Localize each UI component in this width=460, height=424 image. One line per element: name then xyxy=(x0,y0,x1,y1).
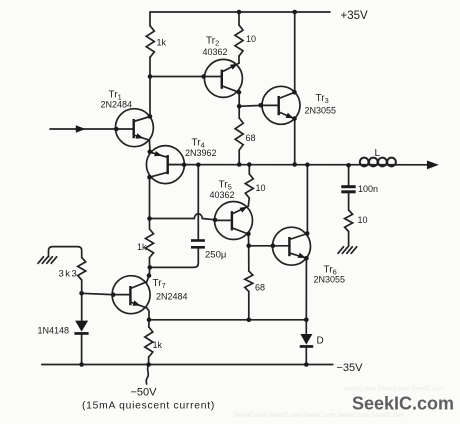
svg-text:−50V: −50V xyxy=(131,387,158,399)
svg-text:1N4148: 1N4148 xyxy=(38,326,70,336)
svg-text:2N3962: 2N3962 xyxy=(185,148,217,158)
svg-text:L: L xyxy=(375,148,381,159)
svg-text:1k: 1k xyxy=(157,38,167,48)
svg-text:40362: 40362 xyxy=(203,47,228,57)
svg-text:68: 68 xyxy=(255,283,265,293)
svg-text:2N2484: 2N2484 xyxy=(156,292,188,302)
svg-text:250μ: 250μ xyxy=(205,250,226,261)
svg-text:2N3055: 2N3055 xyxy=(314,275,346,285)
svg-text:SeekIC.com: SeekIC.com xyxy=(352,394,454,414)
svg-text:(15mA quiescent current): (15mA quiescent current) xyxy=(82,401,215,412)
svg-text:Tr3: Tr3 xyxy=(316,93,329,105)
svg-text:SeekIC.com SeekIC.com SeekIC: SeekIC.com SeekIC.com SeekIC.com SeekIC.… xyxy=(234,413,404,419)
svg-text:68: 68 xyxy=(246,133,256,143)
svg-text:1k: 1k xyxy=(137,242,147,252)
svg-text:SeekIC.com SeekIC.com SeekIC.c: SeekIC.com SeekIC.com SeekIC.com xyxy=(343,387,444,393)
svg-text:10: 10 xyxy=(358,215,368,225)
svg-text:3k3: 3k3 xyxy=(59,269,79,280)
svg-text:100n: 100n xyxy=(358,184,378,194)
svg-text:2N3055: 2N3055 xyxy=(305,106,337,116)
svg-text:−35V: −35V xyxy=(337,362,364,374)
svg-text:1k: 1k xyxy=(153,340,163,350)
svg-text:10: 10 xyxy=(246,34,256,44)
svg-text:40362: 40362 xyxy=(210,190,235,200)
svg-text:Tr7: Tr7 xyxy=(153,278,166,290)
svg-text:+35V: +35V xyxy=(341,10,369,22)
svg-text:D: D xyxy=(317,336,324,347)
svg-text:2N2484: 2N2484 xyxy=(101,100,133,110)
svg-text:Tr2: Tr2 xyxy=(206,36,219,48)
svg-text:10: 10 xyxy=(256,183,266,193)
